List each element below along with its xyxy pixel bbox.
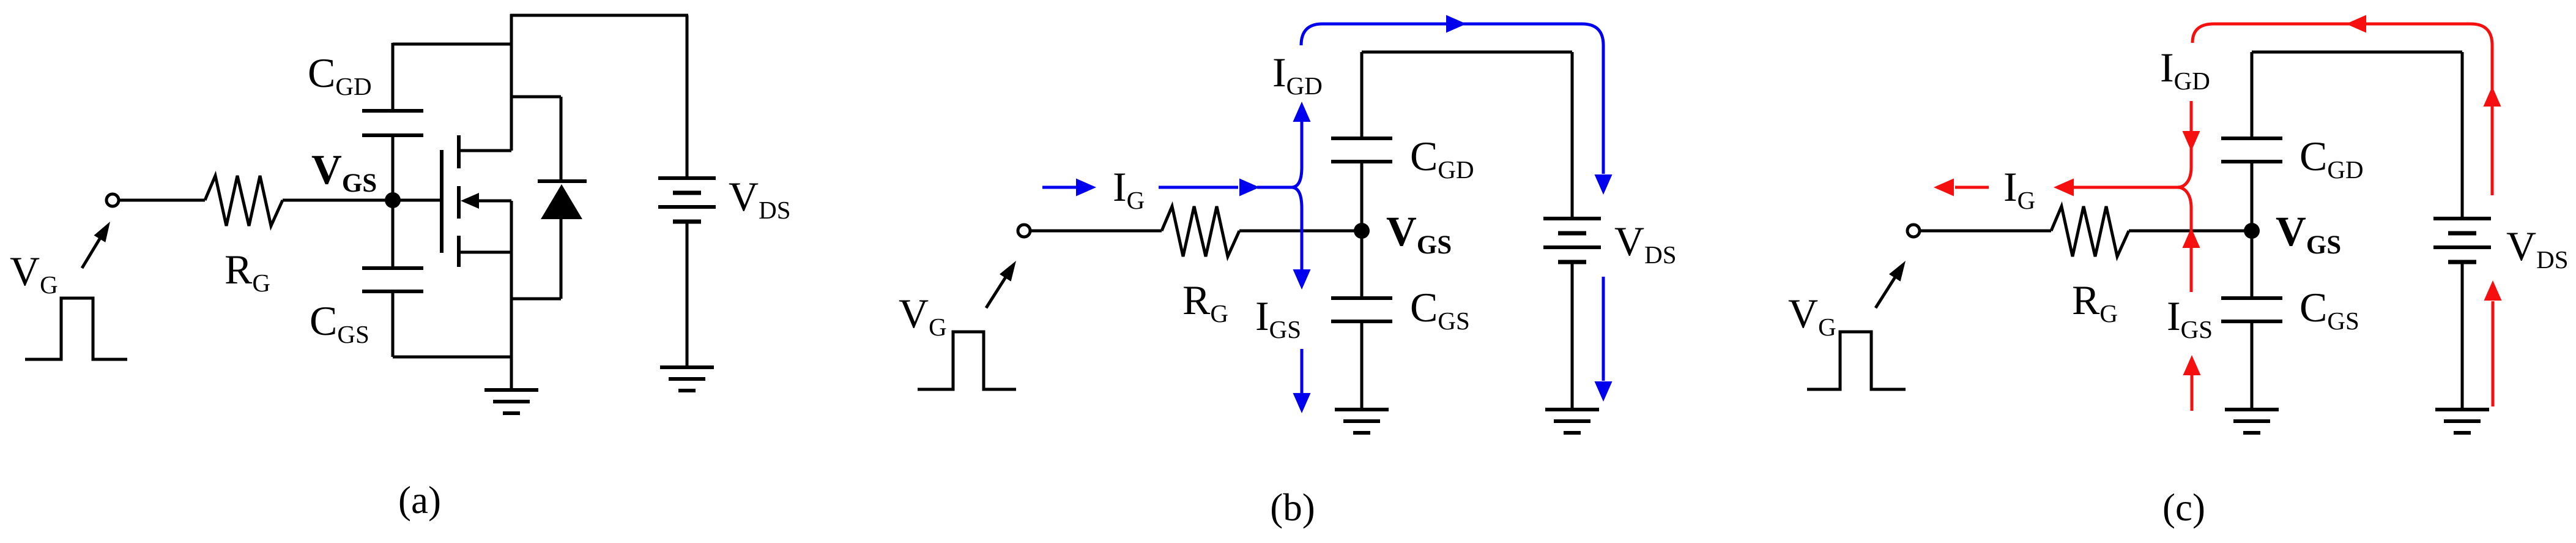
input terminal node (c) xyxy=(1907,225,1920,237)
switch arm SW1 (a) xyxy=(82,237,101,268)
current arrow IGS from ground (c) xyxy=(2191,375,2194,411)
mosfet Q1 source wire (a) xyxy=(459,251,511,254)
svg-text:VGS: VGS xyxy=(311,146,377,198)
capacitor CGD (b) xyxy=(1331,137,1392,140)
current arrow IGS down through node wire (b) xyxy=(1301,208,1304,269)
svg-text:IG: IG xyxy=(1113,163,1145,214)
switch arm SW1 (b) xyxy=(986,275,1006,308)
battery VDS wire bottom (a) xyxy=(686,222,689,367)
svg-text:IGS: IGS xyxy=(1255,293,1301,343)
svg-text:VDS: VDS xyxy=(2506,223,2569,274)
svg-text:CGD: CGD xyxy=(1410,133,1474,184)
current arrow VDS return to ground (b) xyxy=(1602,277,1605,381)
voltage source VG pulse waveform (a) xyxy=(25,298,127,359)
wire resistor to node (c) xyxy=(2129,230,2252,233)
resistor RG (a) xyxy=(205,176,283,226)
capacitor CGD (c) xyxy=(2221,137,2282,140)
svg-text:RG: RG xyxy=(225,246,270,297)
current arrow VDS from ground (c) xyxy=(2492,301,2495,406)
svg-text:VDS: VDS xyxy=(1614,218,1677,269)
mosfet Q1 drain wire (a) xyxy=(459,149,511,152)
current path IGD top loop (c) xyxy=(2192,24,2492,195)
svg-text:VG: VG xyxy=(1788,290,1836,341)
capacitor CGS (a) xyxy=(362,266,423,270)
current arrow IG main (b) xyxy=(1159,186,1238,189)
wire terminal to resistor (b) xyxy=(1031,230,1162,233)
resistor RG (c) xyxy=(2051,206,2129,257)
svg-text:IG: IG xyxy=(2003,163,2035,214)
svg-text:IGS: IGS xyxy=(2167,293,2213,343)
current path IGD top loop (b) xyxy=(1301,24,1603,174)
svg-text:VDS: VDS xyxy=(729,173,791,224)
svg-text:VG: VG xyxy=(10,248,58,299)
wire resistor to gate (a) xyxy=(283,199,440,202)
wire node vertical (c) xyxy=(2251,162,2254,298)
wire diode bottom to source rail (a) xyxy=(511,298,561,301)
current arrow IGD down (c) xyxy=(2190,101,2193,167)
svg-text:CGD: CGD xyxy=(308,50,372,100)
current arrow IGD up (b) xyxy=(1301,121,1304,167)
node VGS junction dot (a) xyxy=(385,192,401,208)
ground GND1 (b) xyxy=(1335,408,1389,411)
battery VDS (c) xyxy=(2433,217,2491,220)
drain rail wire (a) xyxy=(510,14,513,151)
svg-text:CGS: CGS xyxy=(310,298,369,348)
top rail wire (b) xyxy=(1362,51,1572,54)
resistor RG (b) xyxy=(1162,206,1239,257)
wire terminal to resistor (a) xyxy=(120,199,205,202)
node VGS junction dot (c) xyxy=(2244,223,2260,239)
battery VDS (b) xyxy=(1543,217,1601,220)
capacitor CGD (a) xyxy=(362,109,423,113)
svg-text:CGS: CGS xyxy=(2299,284,2359,335)
ground GND2 (b) xyxy=(1545,408,1599,411)
wire CGD top stub (b) xyxy=(1360,52,1364,138)
wire node vertical through VGS (a) xyxy=(392,135,395,268)
battery VDS wire top (b) xyxy=(1571,52,1574,219)
mosfet Q1 gate bar (a) xyxy=(440,150,444,253)
svg-text:CGD: CGD xyxy=(2299,133,2364,184)
wire CGS bottom stub (c) xyxy=(2251,321,2254,410)
top rail wire (a) xyxy=(510,14,688,17)
svg-text:(a): (a) xyxy=(398,479,441,522)
wire CGS bottom stub (a) xyxy=(392,291,395,357)
wire CGS bottom stub (b) xyxy=(1360,321,1364,410)
source rail wire (a) xyxy=(510,201,513,390)
battery VDS wire bottom (b) xyxy=(1571,262,1574,410)
battery VDS wire bottom (c) xyxy=(2461,262,2464,410)
wire resistor to node (b) xyxy=(1239,230,1362,233)
input terminal node (a) xyxy=(106,194,119,206)
current arrow IGS up to node wire (c) xyxy=(2190,208,2193,292)
capacitor CGS (c) xyxy=(2221,296,2282,300)
battery VDS wire top (a) xyxy=(686,15,689,178)
voltage source VG pulse waveform (c) xyxy=(1807,332,1906,389)
svg-text:(b): (b) xyxy=(1270,486,1315,529)
ground GND1 (a) xyxy=(484,388,538,392)
capacitor CGS (b) xyxy=(1331,296,1392,300)
current arrow IG main (c) xyxy=(2054,179,2074,197)
wire diode branch (a) xyxy=(511,95,561,99)
battery VDS (a) xyxy=(658,176,716,180)
svg-text:CGS: CGS xyxy=(1410,284,1470,335)
svg-text:IGD: IGD xyxy=(1272,49,1323,100)
input terminal node (b) xyxy=(1018,225,1030,237)
mosfet Q1 body arrow (a) xyxy=(477,200,511,203)
switch arm SW1 (c) xyxy=(1876,275,1896,308)
ground GND1 (c) xyxy=(2225,408,2279,411)
svg-text:RG: RG xyxy=(1182,277,1228,328)
wire CGS to source rail (a) xyxy=(393,356,511,359)
current arrow IG output (c) xyxy=(1934,179,1954,197)
ground GND2 (a) xyxy=(660,365,714,369)
battery VDS wire top (c) xyxy=(2461,52,2464,219)
wire CGD top stub (c) xyxy=(2251,52,2254,138)
wire CGD top stub (a) xyxy=(392,43,395,111)
svg-text:IGD: IGD xyxy=(2160,44,2210,95)
svg-text:VGS: VGS xyxy=(1386,208,1452,260)
wire terminal to resistor (c) xyxy=(1921,230,2051,233)
voltage source VG pulse waveform (b) xyxy=(918,332,1016,389)
body diode D1 (a) xyxy=(538,179,587,183)
top rail wire (c) xyxy=(2252,51,2462,54)
svg-text:VGS: VGS xyxy=(2276,208,2341,260)
node VGS junction dot (b) xyxy=(1354,223,1370,239)
ground GND2 (c) xyxy=(2435,408,2489,411)
current arrow IGS to ground (b) xyxy=(1301,349,1304,393)
svg-text:RG: RG xyxy=(2072,277,2118,328)
mosfet Q1 channel segments (a) xyxy=(457,135,461,168)
wire CGD to drain rail (a) xyxy=(393,43,511,46)
wire node vertical (b) xyxy=(1360,162,1364,298)
current arrow IG input (b) xyxy=(1042,186,1078,189)
svg-text:(c): (c) xyxy=(2162,486,2205,529)
svg-text:VG: VG xyxy=(899,290,947,341)
